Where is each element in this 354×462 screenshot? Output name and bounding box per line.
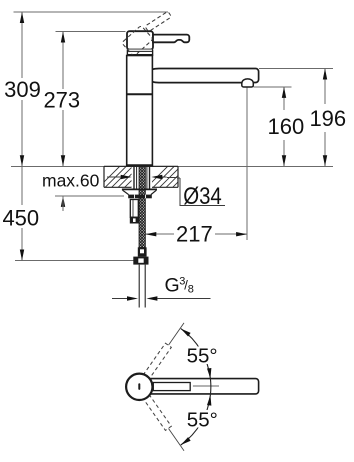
top view: dashed lever rotated down 55: [143, 394, 171, 430]
svg-text:G: G: [165, 274, 180, 296]
top view: faucet body circle: [126, 374, 152, 400]
top view: rotation arc lower: [181, 395, 212, 445]
countertop outline: [104, 166, 178, 187]
dimension 217 line: [145, 233, 174, 235]
dimension 309 line: [21, 12, 23, 78]
dimension 196 line: [324, 69, 326, 105]
top view: spout bar: [148, 379, 259, 394]
extension line 450 bottom level: [15, 260, 133, 262]
top view: lever seen from top: [153, 383, 190, 391]
column joint ring: [127, 93, 153, 95]
svg-text:196: 196: [309, 106, 346, 131]
label 55 deg lower: [185, 409, 219, 432]
top view: rotation arc crossing bar: [209, 379, 211, 395]
mounting shank through countertop: [134, 167, 150, 189]
column base line: [127, 164, 152, 166]
lever handle (solid): [153, 35, 189, 43]
extension line body top level, 273 ref: [56, 31, 126, 33]
extension line aerator outlet level, 160 ref: [254, 86, 292, 88]
extension line spout outlet axis vertical: [246, 87, 248, 240]
faucet body column: [127, 56, 153, 166]
countertop hatched left part: [98, 166, 153, 188]
dashed rotated lever (open position): [145, 11, 172, 32]
faucet head (cartridge housing): [127, 31, 153, 49]
head collar ring: [127, 50, 152, 56]
flexible hose (braided) through shank down to fitting: [139, 167, 145, 248]
spout arm bottom edge: [152, 81, 242, 84]
svg-text:450: 450: [2, 205, 39, 230]
countertop hatched right part: [146, 166, 194, 188]
label 55 deg upper: [185, 344, 219, 367]
svg-text:55°: 55°: [187, 409, 218, 432]
leader to Ø34 label: [180, 178, 225, 206]
svg-text:217: 217: [176, 221, 213, 246]
top view: extension line upper: [169, 323, 185, 345]
extension line spout top right, 196 ref: [259, 68, 333, 70]
svg-text:160: 160: [268, 114, 305, 139]
dashed rotated head (open position): [122, 25, 154, 56]
aerator dome: [242, 79, 253, 83]
hole diameter arrows (Ø34): [107, 176, 122, 178]
hose end fitting (hex): [133, 257, 148, 265]
extension line countertop level: [11, 165, 333, 167]
top view: rotation arc upper: [181, 329, 212, 379]
dimension 160 line: [283, 87, 285, 110]
G3/8 thread arrows: [112, 298, 128, 300]
mounting nut: [128, 195, 152, 199]
dimension 273 line: [62, 32, 64, 90]
top view: center mark: [138, 383, 140, 390]
dimension 450 line: [21, 166, 23, 205]
svg-text:309: 309: [4, 77, 41, 102]
top view: centerline tick: [193, 385, 219, 387]
aerator body: [242, 83, 254, 88]
extension line top (handle top level, 309 ref): [14, 11, 169, 13]
max.60 lower outside arrow: [61, 196, 65, 207]
connection pipe G3/8: [138, 265, 140, 308]
svg-text:max.60: max.60: [42, 171, 100, 191]
hose collar: [138, 247, 147, 256]
svg-text:8: 8: [188, 284, 194, 296]
top view: extension line lower: [169, 429, 185, 451]
fixing stud bracket: [130, 200, 138, 218]
extension line max.60 bottom level: [55, 195, 124, 197]
svg-text:273: 273: [43, 88, 80, 113]
horseshoe washer under countertop: [122, 189, 157, 194]
spout arm top and right end: [152, 69, 258, 83]
svg-text:55°: 55°: [187, 344, 218, 367]
svg-text:Ø34: Ø34: [183, 182, 222, 209]
fixing screw head: [130, 217, 139, 223]
top view: dashed lever rotated up 55: [143, 343, 171, 379]
